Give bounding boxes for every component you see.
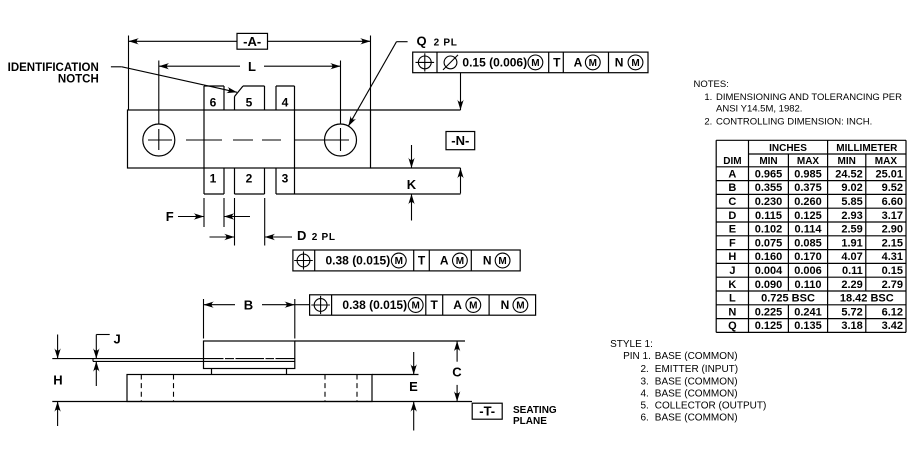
- svg-text:BASE (COMMON): BASE (COMMON): [655, 351, 738, 362]
- svg-text:H: H: [53, 372, 62, 387]
- svg-text:0.160: 0.160: [755, 251, 783, 263]
- svg-text:2: 2: [246, 172, 253, 186]
- svg-text:M: M: [395, 256, 403, 267]
- svg-text:0.38 (0.015): 0.38 (0.015): [342, 298, 407, 312]
- svg-text:DIM: DIM: [723, 156, 741, 167]
- svg-text:4.31: 4.31: [882, 251, 903, 263]
- svg-text:M: M: [469, 301, 477, 312]
- svg-text:F: F: [729, 237, 736, 249]
- svg-text:STYLE 1:: STYLE 1:: [610, 339, 653, 350]
- svg-text:T: T: [431, 298, 439, 312]
- svg-text:6.: 6.: [641, 413, 649, 424]
- svg-text:M: M: [589, 58, 597, 69]
- svg-text:L: L: [248, 59, 256, 74]
- svg-text:A: A: [440, 254, 449, 268]
- svg-text:M: M: [531, 58, 539, 69]
- svg-text:M: M: [631, 58, 639, 69]
- svg-text:1.91: 1.91: [841, 237, 862, 249]
- svg-text:5: 5: [246, 95, 253, 109]
- svg-text:0.114: 0.114: [795, 224, 823, 236]
- svg-text:1: 1: [210, 172, 217, 186]
- svg-text:0.006: 0.006: [794, 265, 822, 277]
- svg-text:-T-: -T-: [479, 403, 495, 418]
- svg-text:BASE (COMMON): BASE (COMMON): [655, 388, 738, 399]
- svg-text:0.115: 0.115: [755, 210, 782, 222]
- svg-text:0.38 (0.015): 0.38 (0.015): [326, 254, 391, 268]
- svg-text:N: N: [483, 254, 492, 268]
- svg-text:MIN: MIN: [838, 156, 856, 167]
- svg-text:4: 4: [282, 95, 289, 109]
- svg-text:2.90: 2.90: [882, 224, 903, 236]
- svg-text:0.355: 0.355: [755, 182, 783, 194]
- svg-text:5.85: 5.85: [841, 196, 862, 208]
- svg-text:PIN 1.: PIN 1.: [623, 351, 651, 362]
- svg-text:25.01: 25.01: [875, 168, 903, 180]
- svg-text:5.72: 5.72: [841, 306, 862, 318]
- svg-text:0.985: 0.985: [794, 168, 822, 180]
- svg-text:A: A: [728, 168, 736, 180]
- svg-text:C: C: [728, 196, 736, 208]
- svg-text:B: B: [244, 297, 253, 312]
- svg-text:M: M: [498, 256, 506, 267]
- svg-text:IDENTIFICATION: IDENTIFICATION: [8, 62, 99, 74]
- svg-text:0.15 (0.006): 0.15 (0.006): [462, 56, 527, 70]
- svg-text:K: K: [407, 177, 417, 192]
- svg-text:9.02: 9.02: [841, 182, 862, 194]
- svg-text:4.07: 4.07: [841, 251, 862, 263]
- svg-text:D: D: [728, 210, 736, 222]
- svg-text:MILLIMETER: MILLIMETER: [836, 143, 898, 154]
- svg-text:0.170: 0.170: [794, 251, 822, 263]
- svg-text:MAX: MAX: [875, 156, 898, 167]
- svg-text:4.: 4.: [641, 388, 649, 399]
- svg-text:MAX: MAX: [797, 156, 820, 167]
- svg-text:COLLECTOR (OUTPUT): COLLECTOR (OUTPUT): [655, 400, 767, 411]
- svg-text:D: D: [297, 228, 306, 243]
- svg-text:E: E: [729, 224, 736, 236]
- svg-text:L: L: [729, 293, 736, 305]
- svg-text:6.12: 6.12: [882, 306, 903, 318]
- svg-text:6.60: 6.60: [882, 196, 903, 208]
- svg-text:H: H: [728, 251, 736, 263]
- svg-text:2.59: 2.59: [841, 224, 862, 236]
- svg-text:N: N: [728, 306, 736, 318]
- svg-text:EMITTER (INPUT): EMITTER (INPUT): [655, 364, 738, 375]
- svg-text:ANSI Y14.5M, 1982.: ANSI Y14.5M, 1982.: [716, 104, 802, 115]
- svg-text:C: C: [452, 365, 462, 380]
- svg-text:0.725 BSC: 0.725 BSC: [761, 293, 815, 305]
- svg-text:0.965: 0.965: [755, 168, 783, 180]
- svg-text:0.241: 0.241: [794, 306, 822, 318]
- svg-text:0.225: 0.225: [755, 306, 783, 318]
- svg-text:0.125: 0.125: [755, 320, 783, 332]
- svg-text:2.: 2.: [704, 117, 712, 128]
- svg-text:E: E: [409, 379, 418, 394]
- svg-text:5.: 5.: [641, 400, 649, 411]
- svg-text:0.260: 0.260: [794, 196, 822, 208]
- svg-text:CONTROLLING DIMENSION: INCH.: CONTROLLING DIMENSION: INCH.: [716, 117, 872, 128]
- svg-text:Q: Q: [728, 320, 737, 332]
- svg-text:DIMENSIONING AND TOLERANCING P: DIMENSIONING AND TOLERANCING PER: [716, 92, 902, 103]
- svg-text:SEATING: SEATING: [513, 405, 557, 416]
- svg-text:2 PL: 2 PL: [434, 37, 458, 48]
- svg-text:3.17: 3.17: [882, 210, 903, 222]
- svg-text:J: J: [729, 265, 735, 277]
- svg-text:T: T: [418, 254, 426, 268]
- svg-text:0.085: 0.085: [794, 237, 822, 249]
- svg-text:3.42: 3.42: [882, 320, 903, 332]
- svg-text:2 PL: 2 PL: [312, 232, 336, 243]
- svg-text:0.135: 0.135: [794, 320, 822, 332]
- svg-text:NOTCH: NOTCH: [58, 73, 99, 85]
- svg-text:24.52: 24.52: [835, 168, 863, 180]
- svg-text:9.52: 9.52: [882, 182, 903, 194]
- svg-text:2.15: 2.15: [882, 237, 903, 249]
- svg-text:18.42 BSC: 18.42 BSC: [840, 293, 894, 305]
- svg-text:PLANE: PLANE: [513, 416, 547, 427]
- svg-text:Q: Q: [417, 34, 427, 49]
- svg-text:2.93: 2.93: [841, 210, 862, 222]
- svg-text:0.102: 0.102: [755, 224, 783, 236]
- svg-text:M: M: [516, 301, 524, 312]
- svg-text:F: F: [166, 209, 174, 224]
- svg-text:N: N: [615, 56, 624, 70]
- svg-text:-A-: -A-: [243, 34, 261, 49]
- svg-text:0.090: 0.090: [755, 279, 783, 291]
- svg-text:MIN: MIN: [759, 156, 777, 167]
- svg-text:N: N: [501, 298, 510, 312]
- svg-text:0.110: 0.110: [795, 279, 822, 291]
- svg-text:BASE (COMMON): BASE (COMMON): [655, 413, 738, 424]
- svg-text:0.375: 0.375: [794, 182, 822, 194]
- svg-text:M: M: [412, 301, 420, 312]
- svg-text:3: 3: [282, 172, 289, 186]
- svg-text:BASE (COMMON): BASE (COMMON): [655, 377, 738, 388]
- svg-text:0.004: 0.004: [755, 265, 783, 277]
- svg-text:J: J: [114, 332, 121, 347]
- svg-text:2.: 2.: [641, 364, 649, 375]
- svg-text:0.11: 0.11: [842, 265, 863, 277]
- svg-text:1.: 1.: [704, 92, 712, 103]
- svg-text:0.075: 0.075: [755, 237, 783, 249]
- svg-text:NOTES:: NOTES:: [694, 79, 729, 90]
- svg-text:0.230: 0.230: [755, 196, 783, 208]
- svg-text:0.125: 0.125: [794, 210, 822, 222]
- svg-text:0.15: 0.15: [882, 265, 903, 277]
- svg-text:3.: 3.: [641, 377, 649, 388]
- svg-text:B: B: [728, 182, 736, 194]
- svg-text:2.29: 2.29: [841, 279, 862, 291]
- svg-text:T: T: [553, 56, 561, 70]
- svg-text:A: A: [453, 298, 462, 312]
- svg-text:A: A: [574, 56, 583, 70]
- svg-text:2.79: 2.79: [882, 279, 903, 291]
- svg-text:INCHES: INCHES: [769, 143, 807, 154]
- svg-text:6: 6: [210, 95, 217, 109]
- svg-text:M: M: [456, 256, 464, 267]
- svg-text:-N-: -N-: [451, 133, 469, 148]
- svg-text:3.18: 3.18: [841, 320, 862, 332]
- svg-text:K: K: [728, 279, 736, 291]
